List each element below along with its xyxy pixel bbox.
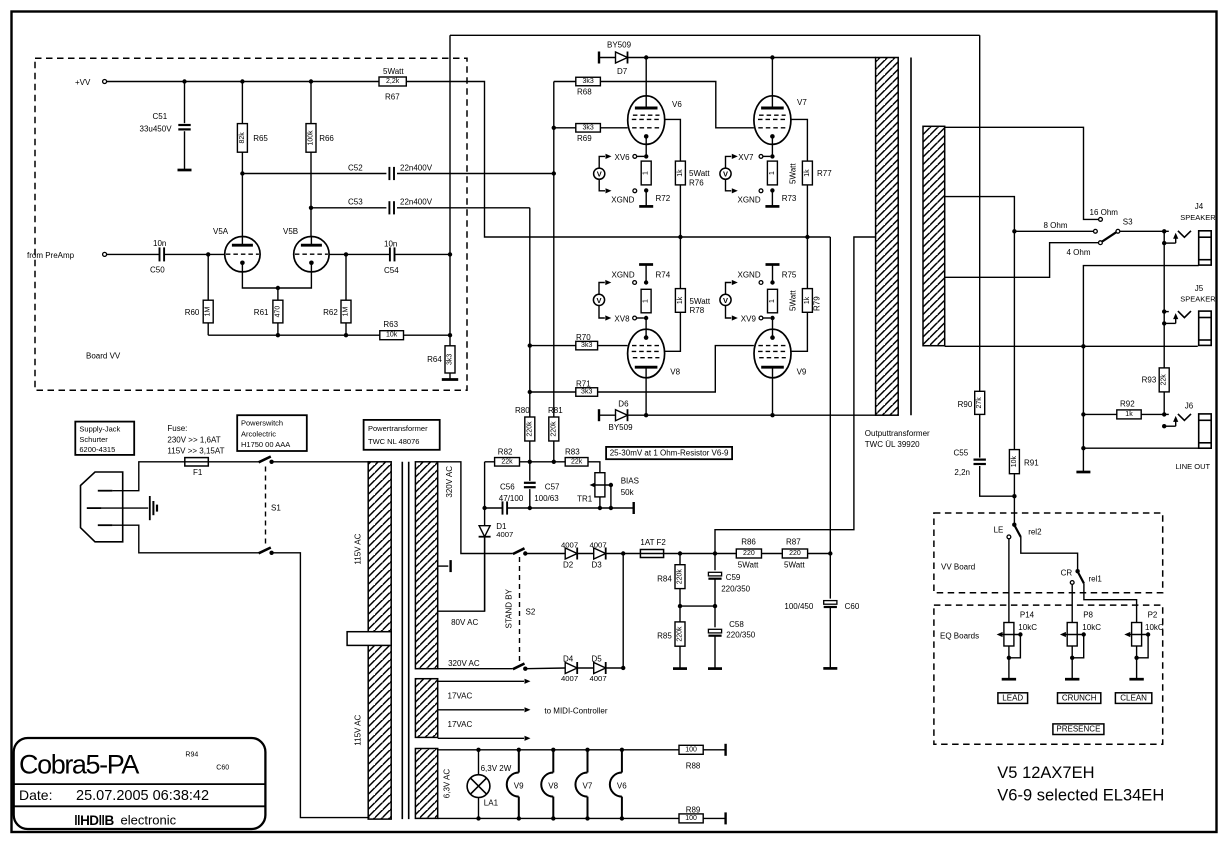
svg-text:rel2: rel2: [1028, 528, 1042, 537]
capacitor C51: [184, 82, 186, 124]
svg-text:10n: 10n: [384, 240, 397, 249]
svg-text:R77: R77: [817, 169, 832, 178]
svg-text:XV7: XV7: [738, 153, 754, 162]
svg-text:TWC ÜL 39920: TWC ÜL 39920: [865, 440, 920, 449]
svg-text:XV9: XV9: [741, 314, 757, 323]
svg-text:2,2n: 2,2n: [954, 468, 970, 477]
wire V7 anode: [771, 58, 773, 108]
svg-text:‖HD‖B: ‖HD‖B: [74, 813, 115, 828]
junction grid/R62: [344, 252, 348, 256]
svg-text:4007: 4007: [496, 530, 513, 539]
wire V6 g2 to R76: [665, 119, 681, 161]
junction R75/XGND: [770, 280, 774, 284]
svg-text:from PreAmp: from PreAmp: [27, 251, 75, 260]
wire bottom bus: [207, 323, 209, 335]
wire R77 to rail: [806, 185, 808, 237]
wire voltmeter-XV7 arrow: [726, 156, 732, 168]
junction R80col/R71: [528, 390, 532, 394]
wire rel2 to rel1: [1021, 537, 1078, 571]
node +VV terminal: [103, 80, 107, 84]
svg-text:R93: R93: [1142, 376, 1157, 385]
svg-text:R94: R94: [185, 751, 198, 758]
wire V9 cathode: [772, 318, 774, 337]
capacitor C59 220/350: [714, 554, 716, 571]
wire D2-D3: [577, 553, 594, 555]
svg-text:25.07.2005 06:38:42: 25.07.2005 06:38:42: [76, 788, 209, 804]
voltmeter V8: [593, 294, 604, 305]
terminal XGND V6: [633, 189, 637, 193]
wire V5B grid to C54: [329, 253, 389, 255]
junction 0V/ground column: [1081, 344, 1085, 348]
capacitor C57: [529, 462, 531, 481]
wire rectifier bottom: [525, 667, 565, 670]
svg-text:80V AC: 80V AC: [451, 618, 478, 627]
resistor R77 1k: [802, 161, 812, 185]
svg-text:R83: R83: [565, 447, 580, 456]
junction R73/XGND: [770, 188, 774, 192]
wire V6 cathode: [645, 137, 647, 157]
wire bias column R81: [553, 82, 555, 418]
svg-text:D7: D7: [617, 67, 628, 76]
svg-text:22k: 22k: [1161, 374, 1168, 386]
wire 80V tap: [438, 537, 485, 612]
svg-text:5Watt: 5Watt: [690, 297, 711, 306]
terminal 16 Ohm: [1099, 218, 1103, 222]
svg-text:3k3: 3k3: [447, 354, 454, 365]
svg-text:SPEAKER: SPEAKER: [1180, 213, 1216, 222]
svg-text:R74: R74: [656, 270, 671, 279]
svg-text:82k: 82k: [239, 132, 246, 144]
junction NFB/C54: [448, 252, 452, 256]
svg-text:R89: R89: [686, 806, 701, 815]
resistor R68 3k3: [554, 81, 576, 83]
wire CR to P8: [1071, 584, 1073, 622]
svg-text:to MIDI-Controller: to MIDI-Controller: [544, 706, 607, 715]
wire voltmeter-XGND arrow V8: [599, 283, 605, 295]
wire HT bottom tap 320V: [438, 668, 513, 670]
label CLEAN: [1115, 693, 1151, 704]
title block frame: [14, 738, 266, 829]
svg-text:R62: R62: [323, 308, 338, 317]
voltmeter V6: [594, 168, 605, 179]
wire R83 to TR1: [588, 462, 600, 473]
svg-text:320V AC: 320V AC: [448, 659, 480, 668]
resistor R89 100: [679, 814, 703, 823]
wire HT top tap 320V: [438, 462, 513, 554]
note box 25-30mV: [606, 447, 732, 459]
svg-text:R63: R63: [383, 320, 398, 329]
svg-text:LINE OUT: LINE OUT: [1176, 462, 1211, 471]
resistor R90 27k: [975, 391, 985, 414]
svg-text:4007: 4007: [590, 540, 607, 549]
voltmeter V7: [720, 168, 731, 179]
svg-text:C56: C56: [500, 482, 515, 491]
wire R76 to rail: [679, 185, 681, 237]
earth ground symbol: [101, 507, 148, 509]
svg-text:XV8: XV8: [614, 314, 630, 323]
resistor R82 22k: [485, 461, 495, 463]
svg-text:R85: R85: [657, 632, 672, 641]
wire S1 to primary: [272, 461, 370, 463]
wire R92 to J6: [1141, 413, 1164, 415]
svg-text:220k: 220k: [550, 421, 557, 437]
resistor R85 220k: [675, 622, 685, 646]
svg-text:P8: P8: [1083, 611, 1093, 620]
svg-text:1M: 1M: [205, 307, 212, 317]
power transformer HT secondary: [415, 462, 437, 669]
capacitor C58 220/350: [714, 606, 716, 627]
junction +VV/R66: [309, 79, 313, 83]
svg-text:R68: R68: [577, 88, 592, 97]
label CRUNCH: [1058, 693, 1101, 704]
svg-text:2,2k: 2,2k: [386, 78, 400, 85]
junction +VV/C51: [182, 79, 186, 83]
wire R63 to NFB node: [404, 334, 451, 336]
svg-text:5Watt: 5Watt: [738, 561, 759, 570]
svg-text:320V AC: 320V AC: [445, 466, 454, 498]
heater V7: [587, 750, 589, 773]
svg-text:10n: 10n: [153, 239, 166, 248]
capacitor C52: [388, 167, 390, 180]
svg-text:D3: D3: [592, 561, 603, 570]
svg-text:1k: 1k: [804, 296, 811, 304]
diode D2 4007: [565, 548, 577, 559]
ground below R72: [645, 190, 647, 206]
svg-text:V8: V8: [670, 368, 680, 377]
svg-text:LE: LE: [994, 525, 1004, 534]
wire 8 ohm tap: [945, 197, 1015, 232]
svg-text:Date:: Date:: [19, 787, 52, 803]
svg-text:+VV: +VV: [75, 78, 91, 87]
resistor R69 3k3: [554, 127, 576, 129]
svg-text:1: 1: [643, 299, 650, 303]
svg-text:R90: R90: [958, 400, 973, 409]
svg-text:XGND: XGND: [738, 195, 761, 204]
ground below R64: [449, 373, 451, 380]
svg-text:TR1: TR1: [577, 495, 593, 504]
wire IEC neutral: [112, 525, 258, 553]
svg-text:R72: R72: [656, 194, 671, 203]
wire R70 to V8 grid: [598, 345, 628, 347]
terminal XV8: [633, 316, 637, 320]
terminal XGND V9: [759, 281, 763, 285]
wire rectifier top: [525, 553, 565, 555]
svg-text:5Watt: 5Watt: [383, 67, 404, 76]
wire R79 to rail: [806, 237, 808, 289]
wire D4-D5: [577, 667, 594, 669]
svg-text:R71: R71: [576, 380, 591, 389]
resistor R63: [380, 331, 404, 340]
svg-text:8 Ohm: 8 Ohm: [1044, 221, 1068, 230]
label box Powerswitch: [237, 415, 307, 451]
wire 8 ohm to contact: [1014, 230, 1093, 232]
junction heater lamp top: [476, 748, 480, 752]
wire IEC live: [112, 462, 184, 491]
svg-text:R80: R80: [515, 406, 530, 415]
resistor R70 3k3: [530, 345, 576, 347]
svg-text:230V >> 1,6AT: 230V >> 1,6AT: [167, 435, 220, 444]
svg-text:XGND: XGND: [611, 195, 634, 204]
svg-text:R92: R92: [1120, 399, 1135, 408]
svg-text:R61: R61: [254, 308, 269, 317]
svg-text:R91: R91: [1024, 459, 1039, 468]
svg-text:Powerswitch: Powerswitch: [241, 419, 283, 428]
svg-text:5Watt: 5Watt: [784, 561, 805, 570]
svg-text:22k: 22k: [501, 458, 513, 465]
svg-text:1k: 1k: [677, 296, 684, 304]
svg-text:STAND BY: STAND BY: [505, 588, 514, 628]
label LEAD: [998, 693, 1028, 704]
svg-text:C60: C60: [845, 602, 860, 611]
wire input: [107, 253, 159, 255]
wire R68 to V7 grid: [600, 82, 754, 128]
svg-text:100k: 100k: [308, 130, 315, 146]
resistor R66: [310, 82, 312, 124]
junction D7/V7 anode: [770, 55, 774, 59]
resistor R76 1k: [675, 161, 685, 185]
ground below C58: [708, 667, 722, 670]
wire voltmeter-XV8 arrow: [599, 306, 605, 319]
junction bus/R61: [276, 333, 280, 337]
wire R86-R87: [762, 553, 783, 555]
primary 115V tap notch: [347, 632, 391, 646]
junction +VV/R65: [240, 79, 244, 83]
svg-text:10kC: 10kC: [1082, 623, 1101, 632]
junction C55/R91: [1012, 494, 1016, 498]
junction bridge bottom: [621, 666, 625, 670]
junction bias/R80: [528, 460, 532, 464]
svg-text:17VAC: 17VAC: [448, 691, 473, 700]
junction lower/C57: [528, 506, 532, 510]
wire V7 g2 to R77: [791, 119, 808, 161]
junction D6/V9 anode: [770, 413, 774, 417]
svg-text:C57: C57: [545, 482, 560, 491]
svg-text:220k: 220k: [677, 626, 684, 642]
power transformer 17V secondary: [415, 679, 437, 738]
svg-text:16 Ohm: 16 Ohm: [1090, 208, 1119, 217]
svg-text:LEAD: LEAD: [1002, 694, 1023, 703]
wire LE to P14: [1008, 539, 1010, 623]
svg-text:220: 220: [743, 550, 755, 557]
switch S2 top arm: [513, 548, 525, 554]
wire rail to B+ node: [829, 237, 831, 553]
svg-text:220k: 220k: [677, 569, 684, 585]
capacitor C60 100/450: [829, 554, 831, 599]
resistor R80: [525, 417, 535, 441]
ground speaker common: [1076, 471, 1090, 474]
svg-text:R81: R81: [548, 406, 563, 415]
relay rel2 pivot: [1012, 523, 1016, 527]
diode D1 4007: [484, 508, 486, 526]
svg-text:10kC: 10kC: [1018, 623, 1037, 632]
switch S1 linkage: [265, 467, 267, 548]
junction NFB/R63: [448, 333, 452, 337]
junction R65/C52: [240, 171, 244, 175]
resistor R62: [345, 254, 347, 300]
svg-text:C53: C53: [348, 198, 363, 207]
junction bias/R81: [552, 460, 556, 464]
diode D3 4007: [594, 548, 606, 559]
fuse F1: [185, 458, 209, 466]
wire B+ line: [664, 553, 737, 555]
svg-text:LA1: LA1: [484, 798, 499, 807]
wire voltmeter-XV9 arrow: [726, 306, 732, 319]
svg-text:D6: D6: [618, 400, 629, 409]
wire V5 cathodes: [242, 263, 311, 288]
diode D6 BY509: [598, 409, 600, 421]
heater V6: [621, 750, 623, 773]
wire 17VAC arrow 3: [438, 737, 524, 739]
svg-text:BY509: BY509: [609, 423, 634, 432]
wire F1 to S1: [208, 461, 258, 463]
switch S3 pivot: [1116, 229, 1120, 233]
terminal bar below C51: [178, 169, 192, 172]
output transformer primary winding: [876, 58, 899, 416]
svg-text:Cobra5-PA: Cobra5-PA: [19, 750, 139, 780]
IEC inlet connector: [81, 472, 123, 542]
wire V6 anode: [645, 58, 647, 108]
wire heater bottom: [438, 817, 679, 819]
output transformer secondary winding: [923, 126, 945, 345]
svg-text:100/63: 100/63: [534, 494, 559, 503]
power transformer 6,3V secondary: [415, 749, 437, 819]
junction D7/V6 anode: [644, 55, 648, 59]
svg-text:1k: 1k: [804, 169, 811, 177]
svg-text:rel1: rel1: [1089, 575, 1103, 584]
resistor R81: [549, 417, 559, 441]
junction R72/XGND: [644, 188, 648, 192]
resistor R65: [241, 82, 243, 124]
junction XV8: [644, 316, 648, 320]
svg-text:PRESENCE: PRESENCE: [1056, 725, 1100, 734]
svg-text:SPEAKER: SPEAKER: [1180, 295, 1216, 304]
wire voltmeter-XGND arrow V9: [726, 283, 732, 295]
svg-text:47/100: 47/100: [499, 494, 524, 503]
junction cathode/R61: [276, 286, 280, 290]
wire R67 output to screen rail: [406, 82, 830, 238]
wire voltmeter-XGND arrow V7: [726, 179, 732, 191]
junction J6 sleeve: [1081, 446, 1085, 450]
svg-text:C50: C50: [150, 266, 165, 275]
svg-text:3k3: 3k3: [582, 124, 593, 131]
svg-text:4007: 4007: [590, 674, 607, 683]
svg-text:100: 100: [685, 815, 697, 822]
junction row/R84: [678, 604, 682, 608]
junction R92/ground col: [1081, 412, 1085, 416]
heater V9: [518, 750, 520, 773]
junction bus/R62: [344, 333, 348, 337]
svg-text:V5A: V5A: [213, 227, 229, 236]
svg-text:220/350: 220/350: [726, 630, 755, 639]
heater V8: [552, 750, 554, 773]
wire 8ohm to R91: [1013, 231, 1015, 449]
EQ Boards dashed border: [934, 605, 1163, 744]
wire 0V tap: [945, 345, 1198, 347]
svg-text:R69: R69: [577, 134, 592, 143]
svg-text:5Watt: 5Watt: [789, 290, 798, 311]
diode D4 4007: [565, 663, 577, 674]
svg-text:F1: F1: [193, 468, 203, 477]
svg-text:3k3: 3k3: [582, 78, 593, 85]
junction lower/D1: [482, 506, 486, 510]
jack J4 SPEAKER: [1162, 229, 1166, 233]
wire V8 g2 to R78: [665, 312, 681, 351]
svg-text:1: 1: [643, 171, 650, 175]
svg-text:5Watt: 5Watt: [689, 169, 710, 178]
ground below R73: [771, 190, 773, 206]
svg-text:V9: V9: [797, 368, 807, 377]
wire R78 to rail: [679, 237, 681, 289]
terminal 8 Ohm: [1094, 229, 1098, 233]
jack J6 LINE OUT: [1162, 412, 1166, 416]
junction heater lamp bottom: [476, 816, 480, 820]
svg-text:1: 1: [769, 299, 776, 303]
svg-text:V9: V9: [514, 782, 524, 791]
wire J4 sleeve: [1083, 266, 1198, 472]
capacitor C56: [502, 501, 504, 514]
wire D5 to junction: [606, 667, 624, 669]
capacitor C55 2,2n: [979, 414, 981, 457]
svg-text:S1: S1: [271, 504, 281, 513]
svg-text:10k: 10k: [386, 332, 398, 339]
svg-text:J4: J4: [1195, 202, 1204, 211]
junction XV6: [644, 154, 648, 158]
junction R74/XGND: [644, 280, 648, 284]
junction row/C59: [713, 604, 717, 608]
relay rel1 pivot: [1075, 569, 1079, 573]
svg-text:VV Board: VV Board: [941, 562, 975, 571]
svg-text:22n400V: 22n400V: [400, 198, 433, 207]
lamp LA1 6,3V 2W: [478, 750, 480, 775]
svg-text:D5: D5: [592, 655, 603, 664]
junction XV7: [770, 154, 774, 158]
wire D3 to F2: [606, 553, 641, 555]
voltmeter V9: [720, 294, 731, 305]
svg-text:C60: C60: [216, 764, 229, 771]
wire 17VAC arrow 1: [438, 680, 524, 682]
output transformer core: [910, 58, 912, 416]
resistor R83 22k: [565, 458, 588, 467]
wire rel1 to P2: [1084, 583, 1137, 622]
jack J5 SPEAKER: [1162, 309, 1166, 313]
tube V9: [754, 329, 791, 378]
svg-text:220: 220: [789, 550, 801, 557]
label PRESENCE: [1053, 724, 1104, 735]
wire R71 to V9 grid: [598, 346, 754, 392]
junction D6/V8 anode: [644, 413, 648, 417]
svg-text:R84: R84: [657, 574, 672, 583]
resistor R71 3k3: [530, 391, 576, 393]
svg-text:3k3: 3k3: [581, 342, 592, 349]
junction B+/C59: [713, 551, 717, 555]
wire R69 to V6 grid: [600, 127, 627, 129]
svg-text:J6: J6: [1185, 402, 1194, 411]
potentiometer P2 10kC: [1132, 623, 1142, 647]
junction R81col/C52: [552, 171, 556, 175]
junction B+/R84: [678, 551, 682, 555]
junction R66/C53: [309, 206, 313, 210]
svg-text:V5B: V5B: [283, 227, 298, 236]
switch S1 top arm: [259, 457, 271, 463]
svg-text:27k: 27k: [976, 397, 983, 409]
Board VV dashed border: [35, 58, 467, 390]
svg-text:220k: 220k: [526, 421, 533, 437]
svg-text:Arcolectric: Arcolectric: [241, 429, 276, 438]
svg-text:S2: S2: [526, 608, 536, 617]
svg-text:BIAS: BIAS: [621, 476, 639, 485]
label box Supply-Jack: [75, 422, 134, 455]
svg-text:R78: R78: [690, 306, 705, 315]
